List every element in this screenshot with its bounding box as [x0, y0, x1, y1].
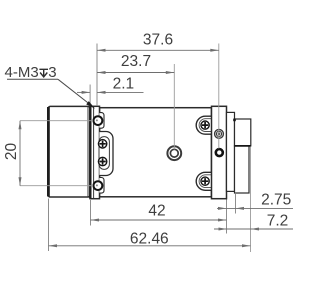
leader line for 4-M3 — [7, 79, 92, 106]
dimension 20 (left) — [20, 120, 93, 122]
rear screw pocket top — [196, 116, 211, 134]
svg-text:2.75: 2.75 — [261, 192, 291, 209]
dimension 62.46 — [49, 244, 251, 247]
dimension 37.6 — [97, 49, 219, 52]
rear step block — [227, 112, 235, 191]
corner screw boss bottom — [99, 178, 104, 194]
svg-text:23.7: 23.7 — [121, 53, 151, 70]
depth symbol — [39, 69, 48, 77]
svg-text:20: 20 — [3, 143, 20, 161]
tripod mount hole (center) — [167, 146, 181, 160]
lens barrel — [48, 106, 90, 197]
dimension 2.1 — [77, 91, 144, 94]
dimension 7.2 — [214, 228, 293, 231]
extension at plate face x=90.5 — [90, 200, 92, 226]
rear screw bottom (Phillips) — [201, 177, 209, 185]
front mount screw M3 top — [94, 116, 103, 125]
connector lower block — [235, 146, 250, 193]
front plate inner line — [93, 107, 95, 198]
extension line at tripod hole x=174.3 — [173, 64, 175, 150]
lens barrel thick front edge — [47, 107, 50, 197]
front plate thick left edge — [89, 107, 91, 199]
front mount screw M3 bottom — [94, 181, 103, 190]
extension line at front plate face x=90 (top) — [89, 85, 91, 107]
svg-text:3: 3 — [48, 64, 56, 81]
extension line at rear hole x=218.8 — [218, 44, 220, 149]
side screw top (Phillips) — [98, 140, 106, 148]
dark hole (rear) — [216, 149, 223, 156]
extension line at front screw centerline x=97 — [96, 44, 98, 107]
extension at step face x=235.5 — [235, 192, 237, 214]
lens barrel rear edge line — [87, 107, 89, 197]
rear plate — [212, 106, 227, 198]
front plate — [90, 106, 99, 198]
extension at rear plate face x=226.5 — [226, 200, 228, 234]
dimension 2.75 — [217, 207, 293, 210]
svg-text:42: 42 — [148, 203, 165, 220]
svg-text:62.46: 62.46 — [130, 231, 169, 248]
svg-text:7.2: 7.2 — [267, 213, 289, 230]
connector corner notch — [233, 119, 236, 122]
indicator ring (rear LED window) — [215, 130, 224, 139]
rear screw pocket bottom — [196, 172, 211, 190]
svg-text:2.1: 2.1 — [113, 76, 135, 93]
connector upper block — [235, 119, 251, 146]
connector upper block dark base line — [235, 145, 251, 147]
rear screw top (Phillips) — [201, 121, 209, 129]
inner stadium around side screws — [99, 137, 109, 170]
extension at connector face x=250.5 — [250, 147, 252, 253]
D-shaped side boss outline — [99, 132, 113, 176]
corner screw boss top — [99, 113, 104, 129]
dimension 42 — [91, 219, 227, 222]
dimension 23.7 — [97, 71, 174, 74]
main body box — [100, 108, 212, 197]
side screw bottom (Phillips) — [98, 157, 106, 165]
extension at barrel front x=48.5 — [48, 199, 50, 252]
svg-text:4-M3: 4-M3 — [5, 64, 39, 81]
svg-text:37.6: 37.6 — [143, 32, 173, 49]
